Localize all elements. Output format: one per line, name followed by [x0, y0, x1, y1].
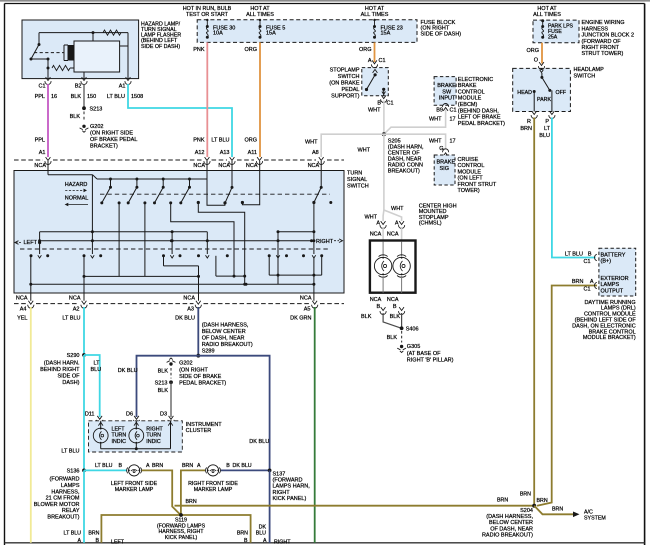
- svg-text:15A: 15A: [266, 31, 276, 37]
- svg-text:NCA: NCA: [370, 297, 382, 303]
- wire BRN marker tap to S204: [175, 505, 535, 507]
- svg-text:BRAKE: BRAKE: [437, 83, 456, 89]
- svg-text:MODULE BRACKET): MODULE BRACKET): [583, 335, 636, 341]
- svg-text:RIGHT: RIGHT: [274, 540, 291, 545]
- park lps fuse 25A: [541, 19, 544, 22]
- left turn indicator bulb: [98, 422, 103, 425]
- svg-text:LT BLU: LT BLU: [107, 94, 125, 100]
- page top gray strip: [0, 0, 650, 2]
- ground G305: [400, 345, 403, 348]
- wire WHT stoplamp B to S205: [383, 101, 385, 135]
- svg-text:SYSTEM: SYSTEM: [584, 516, 606, 522]
- svg-text:WHT: WHT: [357, 148, 370, 154]
- svg-text:B: B: [588, 252, 592, 258]
- svg-text:C1: C1: [379, 58, 386, 64]
- svg-text:PEDAL BRACKET): PEDAL BRACKET): [458, 121, 505, 127]
- svg-text:O: O: [534, 58, 539, 64]
- svg-text:A1: A1: [39, 150, 46, 156]
- svg-text:MODULE: MODULE: [458, 96, 482, 102]
- svg-text:B: B: [377, 304, 381, 310]
- contact drop 145: [143, 201, 146, 204]
- wire DK BLU S137 down to right park lamp: [269, 470, 271, 542]
- svg-text:TURN: TURN: [146, 433, 161, 439]
- svg-text:21 CM FROM: 21 CM FROM: [46, 496, 80, 502]
- svg-text:(ON RIGHT: (ON RIGHT: [179, 368, 208, 374]
- svg-text:OF DASH, NEAR: OF DASH, NEAR: [202, 335, 245, 341]
- switch internal top rail: [47, 161, 49, 175]
- svg-text:HARNESS,: HARNESS,: [51, 489, 80, 495]
- fixed contact dot right: [329, 201, 332, 204]
- svg-text:C1: C1: [583, 259, 590, 265]
- svg-text:BRN: BRN: [186, 499, 197, 505]
- svg-text:OF DASH, NEAR: OF DASH, NEAR: [490, 526, 533, 532]
- flasher internal resistor top: [103, 30, 121, 35]
- svg-text:LT BLU: LT BLU: [565, 252, 583, 258]
- output common line: [40, 240, 312, 242]
- pin A11 of switch: [257, 157, 262, 160]
- wire LT BLU S290 branch to cluster D11: [84, 355, 100, 417]
- headlamp switch wire and blade: [541, 68, 543, 70]
- contact link 198 to bus C: [197, 201, 200, 204]
- svg-text:C1: C1: [387, 101, 394, 107]
- svg-text:RIGHT: RIGHT: [273, 490, 291, 496]
- svg-text:A: A: [146, 463, 150, 469]
- svg-text:INDIC: INDIC: [146, 439, 161, 445]
- svg-text:(ON LEFT: (ON LEFT: [458, 176, 484, 182]
- wire LT BLU from flasher A1 to switch A13: [128, 84, 232, 157]
- svg-text:STOPLAMP: STOPLAMP: [330, 68, 360, 74]
- svg-text:HARNESS: HARNESS: [582, 26, 609, 32]
- pin A4 of switch: [30, 293, 32, 301]
- switch wire A12 internal: [207, 161, 225, 205]
- wire LT BLU from A2 to S290: [83, 307, 85, 355]
- wire BRN from headlamp R to S204: [533, 118, 535, 506]
- CHMSL feed split: [382, 210, 385, 221]
- svg-text:HEAD: HEAD: [517, 90, 532, 96]
- cruise control module dashed box: [434, 155, 455, 185]
- svg-text:BLK: BLK: [158, 388, 169, 394]
- svg-text:S213: S213: [155, 380, 168, 386]
- svg-text:A: A: [77, 538, 81, 544]
- stoplamp switch pin A: [372, 60, 377, 63]
- svg-text:EXTERIOR: EXTERIOR: [601, 276, 629, 282]
- wire BRN left marker to S119: [142, 470, 181, 515]
- hazard/turn-signal flasher box: [22, 20, 139, 79]
- splice S406: [400, 326, 404, 330]
- svg-text:HOT AT: HOT AT: [537, 6, 557, 12]
- svg-text:A: A: [197, 463, 201, 469]
- svg-text:NORMAL: NORMAL: [65, 195, 89, 201]
- svg-text:(B+): (B+): [601, 259, 612, 265]
- svg-text:LT BLU: LT BLU: [95, 463, 113, 469]
- svg-text:15A: 15A: [381, 31, 391, 37]
- svg-text:ORG: ORG: [244, 47, 257, 53]
- flasher internal right wire to A1: [127, 33, 129, 79]
- svg-text:RIGHT: RIGHT: [146, 426, 163, 432]
- svg-text:B: B: [244, 538, 248, 544]
- svg-text:ALL TIMES: ALL TIMES: [533, 12, 561, 18]
- svg-text:NCA: NCA: [246, 163, 258, 169]
- svg-text:BLK: BLK: [387, 335, 398, 341]
- pin A12 of switch: [205, 157, 210, 160]
- svg-text:S204: S204: [520, 508, 533, 514]
- moving contact 278: [277, 232, 279, 284]
- svg-text:ENGINE WIRING: ENGINE WIRING: [582, 20, 625, 26]
- lower linkage dashed line: [20, 248, 330, 250]
- svg-text:SIDE OF DASH): SIDE OF DASH): [141, 44, 180, 50]
- svg-text:RIGHT FRONT: RIGHT FRONT: [582, 45, 620, 51]
- svg-text:B: B: [95, 538, 99, 544]
- svg-text:LAMPS HARN,: LAMPS HARN,: [273, 484, 311, 490]
- splice S205: [382, 132, 386, 136]
- svg-text:A4: A4: [20, 307, 27, 313]
- CHMSL lamp box: [370, 241, 416, 293]
- EBCM pin B9 C1: [443, 108, 448, 111]
- CHMSL pin A left: [381, 221, 386, 224]
- fuse 23 15A: [373, 19, 375, 21]
- svg-text:INDIC: INDIC: [112, 439, 127, 445]
- svg-text:DK BLU: DK BLU: [175, 316, 195, 322]
- svg-text:SW: SW: [442, 89, 452, 95]
- svg-text:A2: A2: [73, 307, 80, 313]
- svg-text:16: 16: [51, 94, 57, 100]
- bottom bus A: [163, 256, 165, 266]
- stoplamp switch fixed contact: [382, 88, 385, 91]
- flasher internal wire top: [39, 32, 128, 34]
- DRL pin B C1: [595, 254, 597, 260]
- svg-text:ALL TIMES: ALL TIMES: [246, 12, 274, 18]
- wire BRN S119 bus: [101, 515, 250, 543]
- switch wire A13 internal blade: [231, 161, 233, 187]
- svg-text:S406: S406: [406, 327, 419, 333]
- svg-text:1508: 1508: [131, 94, 143, 100]
- headlamp switch dashed box: [513, 68, 571, 111]
- svg-text:S213: S213: [90, 107, 103, 113]
- svg-text:SWITCH: SWITCH: [574, 74, 596, 80]
- splice S213: [82, 106, 86, 110]
- stoplamp switch dashed box: [362, 68, 389, 96]
- wire DK BLU S289 to S137: [198, 356, 269, 471]
- svg-text:TURN: TURN: [347, 171, 362, 177]
- svg-text:17: 17: [450, 117, 456, 123]
- svg-text:G305: G305: [407, 344, 420, 350]
- svg-text:B: B: [226, 463, 230, 469]
- svg-text:LAMPS: LAMPS: [601, 282, 620, 288]
- svg-text:CLUSTER: CLUSTER: [186, 428, 212, 434]
- bottom bus B left: [83, 256, 85, 293]
- wire BRN right marker to S119: [181, 470, 205, 515]
- svg-text:BRN: BRN: [88, 531, 99, 537]
- svg-text:R: R: [527, 119, 531, 125]
- svg-text:B: B: [393, 304, 397, 310]
- svg-text:BLK: BLK: [158, 368, 169, 374]
- wire YEL from A4 to left lamp: [30, 307, 32, 543]
- svg-text:HOT AT: HOT AT: [365, 6, 385, 12]
- svg-text:RIGHT 'B' PILLAR): RIGHT 'B' PILLAR): [407, 357, 454, 363]
- svg-text:PNK: PNK: [193, 47, 205, 53]
- svg-text:BREAKOUT): BREAKOUT): [47, 515, 79, 521]
- turn signal switch connector row bottom: [14, 303, 26, 305]
- right bus: [278, 231, 314, 233]
- upper linkage dashed line: [100, 193, 330, 195]
- headlamp switch pin R: [532, 111, 537, 114]
- svg-text:(FORWARD: (FORWARD: [50, 477, 80, 483]
- hazard contact blades: [110, 179, 112, 187]
- flasher internal switch: [38, 43, 41, 46]
- svg-text:LEFT: LEFT: [111, 540, 125, 545]
- instrument cluster dashed box: [89, 421, 183, 452]
- svg-text:NCA: NCA: [69, 295, 81, 301]
- svg-text:LEFT FRONT SIDE: LEFT FRONT SIDE: [111, 481, 158, 487]
- svg-text:A: A: [368, 58, 372, 64]
- svg-text:150: 150: [87, 94, 96, 100]
- ground G202: [82, 125, 85, 128]
- svg-text:BELOW CENTER: BELOW CENTER: [489, 520, 533, 526]
- bottom bus C: [30, 256, 32, 293]
- svg-text:BLU: BLU: [256, 531, 266, 537]
- svg-text:(CHMSL): (CHMSL): [419, 221, 442, 227]
- svg-text:BRAKE: BRAKE: [458, 83, 477, 89]
- svg-text:RIGHT FRONT SIDE: RIGHT FRONT SIDE: [188, 481, 238, 487]
- moving contact 39: [39, 241, 41, 254]
- svg-text:SIDE OF DASH): SIDE OF DASH): [421, 31, 462, 37]
- svg-text:(FORWARD: (FORWARD: [273, 478, 303, 484]
- svg-text:KICK PANEL): KICK PANEL): [165, 535, 198, 541]
- svg-text:LT BLU: LT BLU: [64, 531, 82, 537]
- svg-text:A: A: [395, 221, 399, 227]
- svg-text:D3: D3: [160, 411, 167, 417]
- svg-text:FRONT STRUT: FRONT STRUT: [458, 182, 497, 188]
- svg-text:BLOWER MOTOR: BLOWER MOTOR: [34, 502, 80, 508]
- svg-text:BEHIND RIGHT: BEHIND RIGHT: [40, 367, 80, 373]
- left bus: [40, 231, 208, 233]
- wire A3 column: [198, 266, 200, 301]
- svg-text:LT BLU: LT BLU: [62, 316, 80, 322]
- flasher lower contact wire: [31, 58, 48, 60]
- svg-text:SIGNAL: SIGNAL: [347, 177, 367, 183]
- svg-text:S290: S290: [67, 353, 80, 359]
- svg-text:PARK: PARK: [537, 97, 551, 103]
- svg-text:PNK: PNK: [193, 138, 205, 144]
- svg-text:BLU: BLU: [539, 133, 550, 139]
- switch wire A8 internal blade: [320, 161, 322, 187]
- svg-text:NCA: NCA: [387, 297, 399, 303]
- svg-text:(ON RIGHT SIDE: (ON RIGHT SIDE: [90, 130, 133, 136]
- splice S289: [196, 354, 200, 358]
- svg-text:INSTRUMENT: INSTRUMENT: [186, 422, 223, 428]
- svg-text:B2: B2: [75, 84, 82, 90]
- svg-text:PEDAL BRACKET): PEDAL BRACKET): [179, 380, 226, 386]
- svg-text:D11: D11: [85, 411, 95, 417]
- bottom separator line: [5, 542, 645, 544]
- svg-text:A13: A13: [220, 150, 230, 156]
- svg-text:SUPPORT): SUPPORT): [331, 94, 359, 100]
- svg-text:PEDAL: PEDAL: [341, 87, 359, 93]
- splice S204: [532, 504, 536, 508]
- wire LT BLU S136 to left marker lamp: [84, 469, 127, 471]
- svg-text:TURN: TURN: [112, 433, 127, 439]
- svg-text:BELOW CENTER: BELOW CENTER: [202, 329, 246, 335]
- svg-text:DK BLU: DK BLU: [118, 368, 138, 374]
- headlamp switch HEAD contact: [533, 90, 536, 93]
- svg-text:LEFT OF BRAKE: LEFT OF BRAKE: [458, 115, 501, 121]
- svg-text:TEST OR START: TEST OR START: [186, 12, 229, 18]
- pin A1 of flasher: [126, 77, 131, 80]
- svg-text:A1: A1: [119, 84, 126, 90]
- svg-text:MODULE: MODULE: [458, 169, 482, 175]
- ground G202 mid: [169, 362, 172, 365]
- wire WHT S205 down to CHMSL: [383, 134, 385, 210]
- splice S290: [82, 353, 86, 357]
- svg-text:BLK: BLK: [361, 314, 372, 320]
- wire WHT S205 to switch A8: [321, 134, 384, 157]
- svg-text:CRUISE: CRUISE: [458, 157, 479, 163]
- svg-text:17: 17: [450, 139, 456, 145]
- svg-text:LEFT: LEFT: [24, 240, 38, 246]
- svg-text:SIG: SIG: [440, 166, 449, 172]
- splice S137: [268, 469, 272, 473]
- turn signal switch box: [14, 171, 344, 294]
- moving contact 207: [206, 232, 208, 254]
- svg-text:BRN: BRN: [572, 279, 584, 285]
- svg-text:LEFT: LEFT: [112, 426, 126, 432]
- pin A2 of switch: [83, 293, 85, 301]
- svg-text:BRN: BRN: [537, 498, 548, 504]
- wire DK BLU right marker to S137: [221, 469, 270, 471]
- EBCM brake sw input dashed box: [434, 77, 456, 106]
- svg-text:OFF: OFF: [556, 90, 567, 96]
- moving contact 313: [313, 203, 315, 255]
- turn signal switch connector row top: [14, 159, 43, 161]
- contact drop 119: [118, 201, 121, 204]
- wire ORG from park lps fuse to headlamp switch: [541, 43, 543, 64]
- svg-text:RELAY: RELAY: [62, 508, 80, 514]
- svg-text:BRN: BRN: [152, 463, 163, 469]
- DRL pin A C1: [595, 282, 597, 288]
- CHMSL pin A right: [399, 221, 404, 224]
- flasher internal resistor bottom: [52, 65, 70, 70]
- wire BLK from flasher B2 to S213: [83, 84, 85, 109]
- junction block 2 dashed box: [533, 20, 579, 43]
- svg-text:BRN: BRN: [520, 126, 532, 132]
- pin B2 of flasher: [82, 77, 87, 80]
- svg-text:C1: C1: [583, 287, 590, 293]
- svg-text:WHT: WHT: [391, 206, 404, 212]
- svg-text:A/C: A/C: [584, 509, 593, 515]
- svg-text:A5: A5: [304, 307, 311, 313]
- svg-text:OF BRAKE PEDAL: OF BRAKE PEDAL: [90, 137, 137, 143]
- svg-text:C1: C1: [38, 84, 45, 90]
- svg-text:ORG: ORG: [359, 47, 372, 53]
- svg-text:D6: D6: [126, 411, 133, 417]
- svg-text:(DASH HARNESS,: (DASH HARNESS,: [202, 322, 249, 328]
- svg-text:BATTERY: BATTERY: [601, 252, 626, 258]
- svg-text:B: B: [377, 101, 381, 107]
- svg-text:WHT: WHT: [305, 140, 318, 146]
- svg-text:P: P: [545, 119, 549, 125]
- svg-text:MARKER LAMP: MARKER LAMP: [115, 487, 154, 493]
- pin A8 of switch: [319, 157, 324, 160]
- cruise module pin G: [443, 153, 448, 156]
- svg-text:DK BLU: DK BLU: [249, 439, 269, 445]
- svg-text:ORG: ORG: [244, 138, 257, 144]
- svg-text:A: A: [590, 279, 594, 285]
- svg-text:NCA: NCA: [370, 232, 382, 238]
- moving contact 172: [171, 232, 173, 254]
- svg-text:TOWER): TOWER): [458, 188, 480, 194]
- svg-text:C1: C1: [450, 108, 457, 114]
- svg-text:(ON BRAKE: (ON BRAKE: [329, 81, 360, 87]
- CHMSL bulb left: [382, 242, 384, 257]
- svg-text:YEL: YEL: [17, 316, 27, 322]
- svg-text:BLU: BLU: [91, 367, 102, 373]
- fuse 30 10A: [206, 19, 208, 21]
- wire ORG from fuse 23 to stoplamp switch: [374, 42, 376, 62]
- svg-text:NCA: NCA: [300, 295, 312, 301]
- svg-text:MARKER LAMP: MARKER LAMP: [194, 487, 233, 493]
- flasher B2 internal wire: [83, 72, 85, 79]
- left front side marker lamp: [129, 465, 140, 476]
- svg-text:NCA: NCA: [387, 232, 399, 238]
- svg-text:S289: S289: [202, 348, 215, 354]
- pin A1 of switch: [46, 157, 51, 160]
- svg-text:HOT AT: HOT AT: [250, 6, 270, 12]
- svg-text:B: B: [119, 463, 123, 469]
- svg-text:S136: S136: [67, 468, 80, 474]
- svg-text:BLK: BLK: [390, 314, 401, 320]
- stoplamp switch blade: [373, 69, 378, 73]
- wire LT BLU from headlamp P to DRL module: [552, 118, 596, 258]
- svg-text:ELECTRONIC: ELECTRONIC: [458, 77, 493, 83]
- flasher inner unit box: [74, 41, 120, 72]
- headlamp switch output wires: [533, 92, 535, 112]
- svg-text:BRN: BRN: [520, 491, 531, 497]
- svg-text:(DASH HARN.: (DASH HARN.: [44, 360, 80, 366]
- svg-text:LT BLU: LT BLU: [211, 138, 229, 144]
- fuse block dashed box: [197, 20, 417, 43]
- svg-text:DK GRN: DK GRN: [290, 316, 311, 322]
- svg-text:SIDE OF: SIDE OF: [57, 373, 80, 379]
- svg-text:WHT: WHT: [429, 117, 442, 123]
- switch wire A11 internal: [242, 161, 259, 205]
- svg-text:CONTROL: CONTROL: [458, 163, 485, 169]
- wire DK BLU S289 to cluster D6: [137, 356, 199, 417]
- svg-text:NCA: NCA: [34, 163, 46, 169]
- svg-text:B9: B9: [436, 108, 443, 114]
- wire BRN S204 to AC system: [534, 506, 573, 515]
- svg-text:CONTROL: CONTROL: [458, 89, 485, 95]
- svg-text:SWITCH: SWITCH: [338, 74, 360, 80]
- svg-text:(DASH HARNESS,: (DASH HARNESS,: [486, 514, 533, 520]
- svg-text:BRN: BRN: [182, 463, 193, 469]
- svg-text:SWITCH: SWITCH: [347, 183, 369, 189]
- splice S136: [82, 469, 86, 473]
- svg-text:NCA: NCA: [193, 163, 205, 169]
- svg-text:HOT IN RUN, BULB: HOT IN RUN, BULB: [183, 6, 232, 12]
- pin A5 of switch: [312, 301, 317, 304]
- contact drop 171 to right weave: [169, 201, 172, 204]
- headlamp switch top pin: [539, 62, 544, 65]
- svg-text:DK BLU: DK BLU: [233, 463, 252, 469]
- svg-text:DASH): DASH): [62, 380, 79, 386]
- svg-text:LT: LT: [544, 126, 551, 132]
- svg-text:(AT BASE OF: (AT BASE OF: [407, 351, 441, 357]
- flasher coil symbol: [34, 52, 64, 54]
- svg-text:NCA: NCA: [218, 163, 230, 169]
- svg-text:WHT: WHT: [364, 215, 377, 221]
- svg-text:25A: 25A: [548, 35, 558, 41]
- stoplamp switch pin B: [381, 95, 386, 98]
